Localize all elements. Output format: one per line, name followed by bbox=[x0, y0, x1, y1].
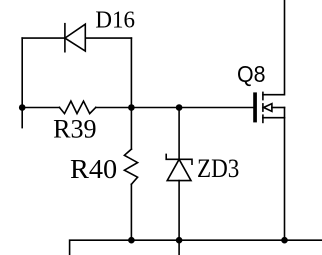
svg-text:R39: R39 bbox=[53, 115, 97, 144]
resistor R39 bbox=[59, 101, 95, 114]
svg-text:ZD3: ZD3 bbox=[197, 153, 239, 183]
junction node A bbox=[19, 104, 26, 111]
wire ZD3 stub below bottom rail bbox=[178, 240, 180, 255]
wire bottom rail bbox=[70, 240, 322, 255]
wire top horizontal right segment from D16 anode bbox=[85, 37, 131, 39]
junction node E (ZD3 bottom) bbox=[176, 237, 183, 244]
junction node B (R39/R40/loop) bbox=[128, 104, 135, 111]
diode D16 bbox=[65, 24, 85, 52]
wire stub below node A bbox=[21, 108, 23, 128]
zener diode ZD3 bbox=[166, 108, 192, 255]
drain lead bbox=[263, 0, 285, 95]
gate plate (thick bar) bbox=[253, 92, 257, 122]
junction node D (R40 bottom) bbox=[128, 237, 135, 244]
wire right vertical of top loop bbox=[130, 38, 132, 107]
junction node F (Q8 source at rail) bbox=[281, 237, 288, 244]
wire main horizontal node A to R39 bbox=[22, 107, 59, 109]
body channel tick bbox=[262, 104, 264, 111]
wire left vertical from top loop to node A bbox=[21, 38, 23, 107]
MOSFET Q8 bbox=[253, 0, 284, 240]
source lead bbox=[263, 108, 285, 118]
svg-text:R40: R40 bbox=[70, 154, 117, 184]
source channel tick bbox=[262, 115, 264, 122]
svg-text:Q8: Q8 bbox=[237, 61, 266, 87]
source wire down to bottom rail bbox=[284, 118, 286, 241]
body lead bbox=[272, 107, 285, 109]
wire R39 to node B and on to node C and MOSFET gate bbox=[96, 107, 253, 109]
body arrow bbox=[264, 104, 272, 112]
resistor R40 bbox=[124, 108, 137, 241]
svg-text:D16: D16 bbox=[95, 7, 135, 34]
wire top horizontal left segment to D16 cathode bbox=[22, 37, 65, 39]
junction node C (ZD3 top) bbox=[176, 104, 183, 111]
drain channel tick bbox=[262, 92, 264, 99]
